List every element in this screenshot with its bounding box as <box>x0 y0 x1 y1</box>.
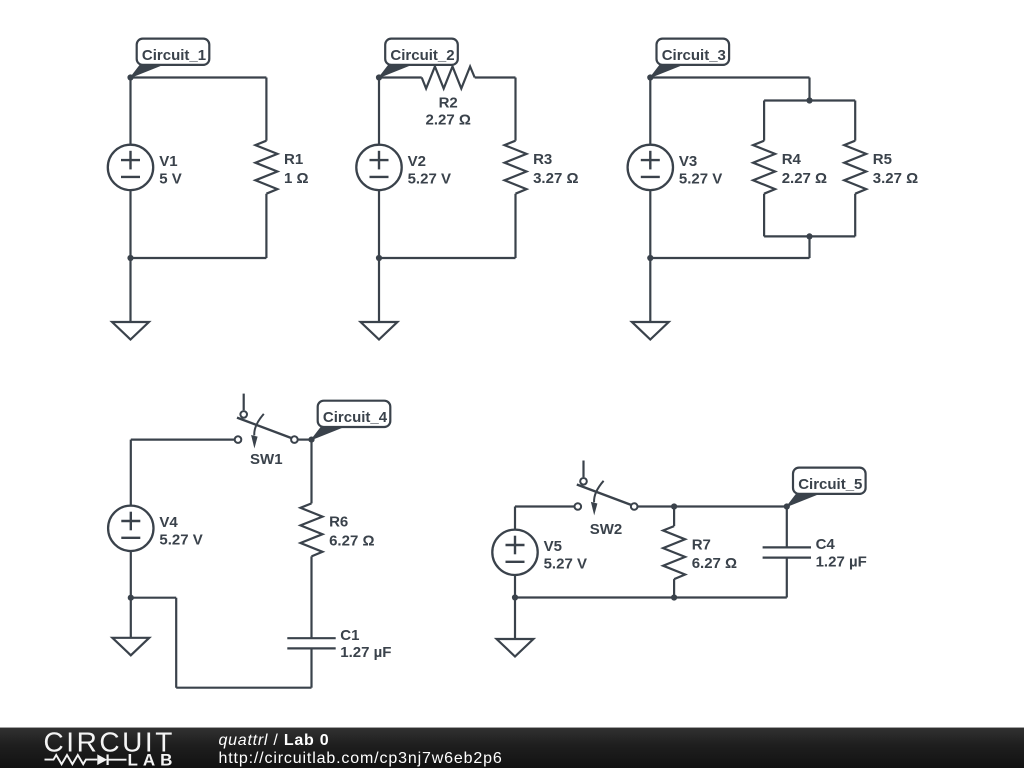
svg-text:V4: V4 <box>159 514 178 531</box>
svg-text:Circuit_2: Circuit_2 <box>390 47 454 64</box>
svg-text:5.27 V: 5.27 V <box>679 170 722 187</box>
svg-text:http://circuitlab.com/cp3nj7w6: http://circuitlab.com/cp3nj7w6eb2p6 <box>219 750 503 767</box>
svg-text:R2: R2 <box>439 94 458 111</box>
svg-text:5.27 V: 5.27 V <box>544 555 587 572</box>
svg-text:R7: R7 <box>692 536 711 553</box>
svg-text:3.27 Ω: 3.27 Ω <box>533 170 578 187</box>
svg-text:2.27 Ω: 2.27 Ω <box>426 112 471 129</box>
svg-text:Circuit_4: Circuit_4 <box>323 409 388 426</box>
svg-text:V5: V5 <box>544 538 562 555</box>
svg-text:Circuit_1: Circuit_1 <box>142 47 206 64</box>
svg-text:5 V: 5 V <box>159 170 182 187</box>
svg-text:5.27 V: 5.27 V <box>159 531 202 548</box>
svg-text:SW1: SW1 <box>250 451 283 468</box>
svg-text:R6: R6 <box>329 514 348 531</box>
svg-text:Circuit_3: Circuit_3 <box>662 47 726 64</box>
svg-text:6.27 Ω: 6.27 Ω <box>692 555 737 572</box>
svg-text:R1: R1 <box>284 151 303 168</box>
svg-text:6.27 Ω: 6.27 Ω <box>329 533 374 550</box>
svg-text:C4: C4 <box>816 536 836 553</box>
svg-text:SW2: SW2 <box>590 521 623 538</box>
svg-text:V2: V2 <box>408 153 426 170</box>
svg-text:V1: V1 <box>159 153 177 170</box>
svg-text:LAB: LAB <box>128 750 178 768</box>
svg-text:5.27 V: 5.27 V <box>408 170 451 187</box>
svg-text:1.27 µF: 1.27 µF <box>340 644 391 661</box>
svg-text:2.27 Ω: 2.27 Ω <box>782 170 827 187</box>
svg-text:quattrl / Lab 0: quattrl / Lab 0 <box>219 732 330 749</box>
svg-text:1 Ω: 1 Ω <box>284 170 309 187</box>
svg-text:R5: R5 <box>873 151 892 168</box>
svg-text:1.27 µF: 1.27 µF <box>816 553 867 570</box>
svg-text:V3: V3 <box>679 153 697 170</box>
svg-text:R3: R3 <box>533 151 552 168</box>
svg-text:3.27 Ω: 3.27 Ω <box>873 170 918 187</box>
svg-text:C1: C1 <box>340 627 359 644</box>
svg-text:Circuit_5: Circuit_5 <box>798 476 862 493</box>
svg-text:R4: R4 <box>782 151 802 168</box>
